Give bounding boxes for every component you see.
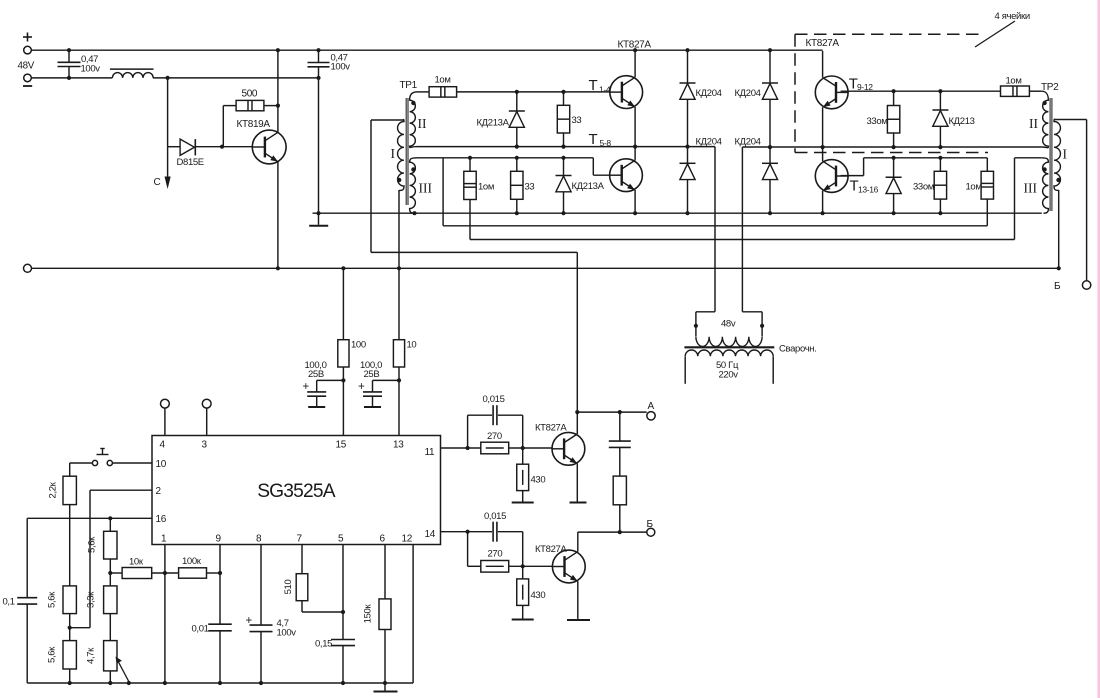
svg-text:48v: 48v [721, 319, 736, 330]
svg-text:220v: 220v [719, 370, 739, 381]
svg-text:I: I [1063, 146, 1068, 161]
svg-text:25В: 25В [308, 369, 324, 380]
svg-text:16: 16 [156, 514, 167, 525]
svg-text:14: 14 [425, 529, 436, 540]
svg-text:33: 33 [572, 115, 582, 126]
svg-text:1ом: 1ом [435, 75, 451, 86]
svg-text:3,3к: 3,3к [86, 591, 97, 608]
svg-text:I: I [391, 146, 396, 161]
svg-text:1: 1 [161, 534, 167, 545]
svg-text:8: 8 [256, 534, 262, 545]
svg-text:Сварочн.: Сварочн. [779, 344, 816, 355]
svg-text:270: 270 [488, 549, 503, 560]
svg-text:100v: 100v [81, 64, 101, 75]
svg-text:100v: 100v [277, 628, 297, 639]
svg-text:КД213А: КД213А [572, 181, 605, 192]
svg-text:КД204: КД204 [735, 137, 761, 148]
svg-text:430: 430 [531, 475, 546, 486]
svg-text:150к: 150к [363, 604, 374, 624]
svg-text:4: 4 [160, 440, 166, 451]
svg-text:510: 510 [283, 580, 294, 595]
svg-text:КТ827А: КТ827А [535, 423, 567, 434]
svg-text:48V: 48V [18, 61, 35, 72]
svg-text:КД213: КД213 [949, 116, 975, 127]
svg-text:12: 12 [402, 534, 413, 545]
svg-text:T: T [589, 131, 598, 148]
svg-text:0,015: 0,015 [483, 394, 505, 405]
svg-text:11: 11 [425, 447, 435, 458]
svg-text:C: C [154, 177, 161, 188]
svg-text:13: 13 [393, 440, 404, 451]
svg-text:33ом: 33ом [867, 116, 888, 127]
svg-text:II: II [1029, 116, 1038, 131]
svg-text:0,1: 0,1 [3, 597, 15, 608]
svg-text:III: III [1024, 181, 1038, 196]
svg-text:1-4: 1-4 [599, 84, 611, 94]
svg-text:КТ819А: КТ819А [237, 119, 271, 130]
svg-text:10к: 10к [129, 557, 144, 568]
svg-text:100: 100 [351, 340, 366, 351]
svg-text:III: III [419, 181, 433, 196]
svg-text:SG3525A: SG3525A [257, 481, 336, 502]
svg-text:4 ячейки: 4 ячейки [995, 11, 1030, 22]
svg-text:15: 15 [336, 440, 347, 451]
svg-text:270: 270 [487, 431, 502, 442]
svg-text:9: 9 [216, 534, 222, 545]
svg-text:7: 7 [297, 534, 303, 545]
svg-text:+: + [358, 381, 365, 393]
svg-text:6: 6 [380, 534, 386, 545]
svg-text:33: 33 [525, 182, 535, 193]
svg-text:5,6к: 5,6к [47, 646, 58, 663]
svg-text:5,6к: 5,6к [47, 591, 58, 608]
svg-text:A: A [648, 401, 655, 412]
svg-text:КД204: КД204 [735, 88, 761, 99]
svg-text:II: II [418, 116, 427, 131]
svg-text:+: + [303, 381, 310, 393]
svg-text:500: 500 [242, 89, 258, 100]
svg-text:10: 10 [407, 340, 417, 351]
svg-text:10: 10 [156, 459, 167, 470]
svg-text:TP1: TP1 [400, 80, 418, 91]
svg-text:1ом: 1ом [966, 182, 982, 193]
svg-text:КТ827А: КТ827А [806, 38, 840, 49]
svg-text:2: 2 [156, 486, 162, 497]
svg-text:Б: Б [647, 519, 654, 530]
svg-text:1ом: 1ом [1006, 76, 1022, 87]
svg-text:100к: 100к [182, 556, 202, 567]
svg-text:430: 430 [531, 590, 546, 601]
svg-text:100v: 100v [331, 62, 351, 73]
svg-text:0,01: 0,01 [192, 624, 209, 635]
svg-text:25В: 25В [364, 369, 380, 380]
svg-text:КД204: КД204 [696, 88, 722, 99]
svg-text:D815E: D815E [177, 157, 204, 168]
svg-text:+: + [246, 615, 253, 627]
svg-text:13-16: 13-16 [858, 184, 879, 194]
svg-text:3: 3 [202, 440, 208, 451]
svg-text:КТ827А: КТ827А [535, 544, 567, 555]
svg-text:T: T [589, 77, 598, 94]
svg-text:1ом: 1ом [478, 182, 494, 193]
svg-text:0,015: 0,015 [484, 511, 506, 522]
svg-text:5,6к: 5,6к [87, 536, 98, 553]
svg-text:2,2к: 2,2к [48, 481, 59, 498]
svg-text:5: 5 [338, 534, 344, 545]
svg-text:0,15: 0,15 [315, 639, 332, 650]
svg-text:КД204: КД204 [696, 137, 722, 148]
svg-text:КД213А: КД213А [477, 118, 510, 129]
svg-text:33ом: 33ом [913, 182, 934, 193]
svg-text:Б: Б [1054, 281, 1061, 292]
svg-text:4,7к: 4,7к [86, 647, 97, 664]
